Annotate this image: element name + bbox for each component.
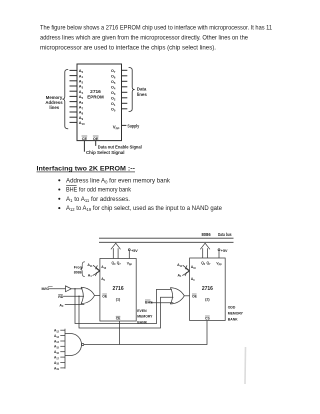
svg-text:microprocessor are used to int: microprocessor are used to interface the… — [40, 45, 216, 52]
svg-text:(1): (1) — [116, 297, 121, 301]
svg-text:VPP: VPP — [216, 262, 222, 267]
svg-text:A19: A19 — [54, 366, 60, 371]
svg-text:Chip Select Signal: Chip Select Signal — [86, 150, 125, 155]
svg-text:address lines which are given: address lines which are given from the m… — [40, 35, 248, 42]
svg-text:CE: CE — [116, 317, 121, 321]
svg-text:A16: A16 — [54, 350, 60, 355]
svg-text:lines: lines — [137, 92, 148, 97]
svg-text:A0: A0 — [59, 303, 64, 308]
svg-text:A0: A0 — [191, 277, 195, 282]
svg-text:Supply: Supply — [127, 123, 139, 128]
svg-text:CE: CE — [82, 136, 88, 141]
svg-text:A1 to A11 for addresses.: A1 to A11 for addresses. — [66, 196, 130, 203]
svg-text:Q7: Q7 — [207, 261, 212, 266]
svg-text:Interfacing two 2K EPROM :--: Interfacing two 2K EPROM :-- — [37, 166, 136, 173]
svg-text:VPP: VPP — [127, 262, 133, 267]
svg-text:A12 to A19 for chip select, us: A12 to A19 for chip select, used as the … — [66, 205, 223, 212]
svg-text:Q0: Q0 — [112, 261, 117, 266]
svg-text:BANK: BANK — [137, 320, 147, 324]
svg-text:BANK: BANK — [228, 318, 238, 322]
svg-text:OE: OE — [192, 294, 198, 298]
svg-text:MEMORY: MEMORY — [228, 312, 244, 316]
svg-text:BHE for odd memory bank: BHE for odd memory bank — [66, 187, 132, 194]
svg-text:Q0: Q0 — [201, 261, 206, 266]
svg-text:A11: A11 — [177, 263, 183, 268]
svg-text:Data out Enable Signal: Data out Enable Signal — [98, 144, 142, 149]
svg-text:O0: O0 — [111, 107, 116, 113]
svg-text:CS: CS — [205, 316, 210, 320]
svg-text:A10: A10 — [191, 265, 197, 270]
svg-text:A11: A11 — [87, 263, 93, 268]
svg-text:A15: A15 — [54, 345, 60, 350]
svg-text:ODD: ODD — [228, 306, 236, 310]
svg-text:8086: 8086 — [74, 270, 82, 274]
svg-text:OE: OE — [93, 136, 99, 141]
svg-text:M/IO: M/IO — [42, 287, 50, 291]
svg-text:A13: A13 — [54, 334, 60, 339]
svg-text:Data: Data — [137, 86, 147, 91]
svg-text:MEMORY: MEMORY — [137, 315, 153, 319]
svg-text:RD: RD — [58, 295, 64, 299]
svg-text:The figure below shows a 2716: The figure below shows a 2716 EPROM chip… — [40, 25, 272, 32]
svg-text:Address line A0 for even memor: Address line A0 for even memory bank — [66, 177, 171, 184]
svg-text:+5V: +5V — [131, 249, 138, 253]
svg-text:Q7: Q7 — [117, 261, 122, 266]
svg-text:lines: lines — [49, 105, 59, 110]
svg-text:A1: A1 — [88, 273, 93, 278]
svg-text:A1: A1 — [178, 273, 183, 278]
svg-text:2716: 2716 — [112, 286, 123, 292]
svg-text:EVEN: EVEN — [137, 309, 147, 313]
svg-text:A12: A12 — [54, 329, 60, 334]
svg-text:A0: A0 — [101, 277, 105, 282]
svg-text:A14: A14 — [54, 339, 60, 344]
svg-text:8086: 8086 — [202, 232, 212, 237]
svg-text:EPROM: EPROM — [87, 95, 104, 100]
svg-text:A17: A17 — [54, 356, 60, 361]
svg-text:VPP: VPP — [113, 125, 120, 131]
svg-text:Data bus: Data bus — [218, 232, 232, 237]
svg-text:A18: A18 — [54, 361, 60, 366]
svg-text:A10: A10 — [79, 120, 85, 126]
svg-text:OE: OE — [102, 294, 108, 298]
svg-text:+5V: +5V — [221, 249, 228, 253]
svg-text:A10: A10 — [101, 265, 107, 270]
svg-text:(2): (2) — [205, 297, 210, 301]
svg-text:2716: 2716 — [202, 286, 213, 292]
